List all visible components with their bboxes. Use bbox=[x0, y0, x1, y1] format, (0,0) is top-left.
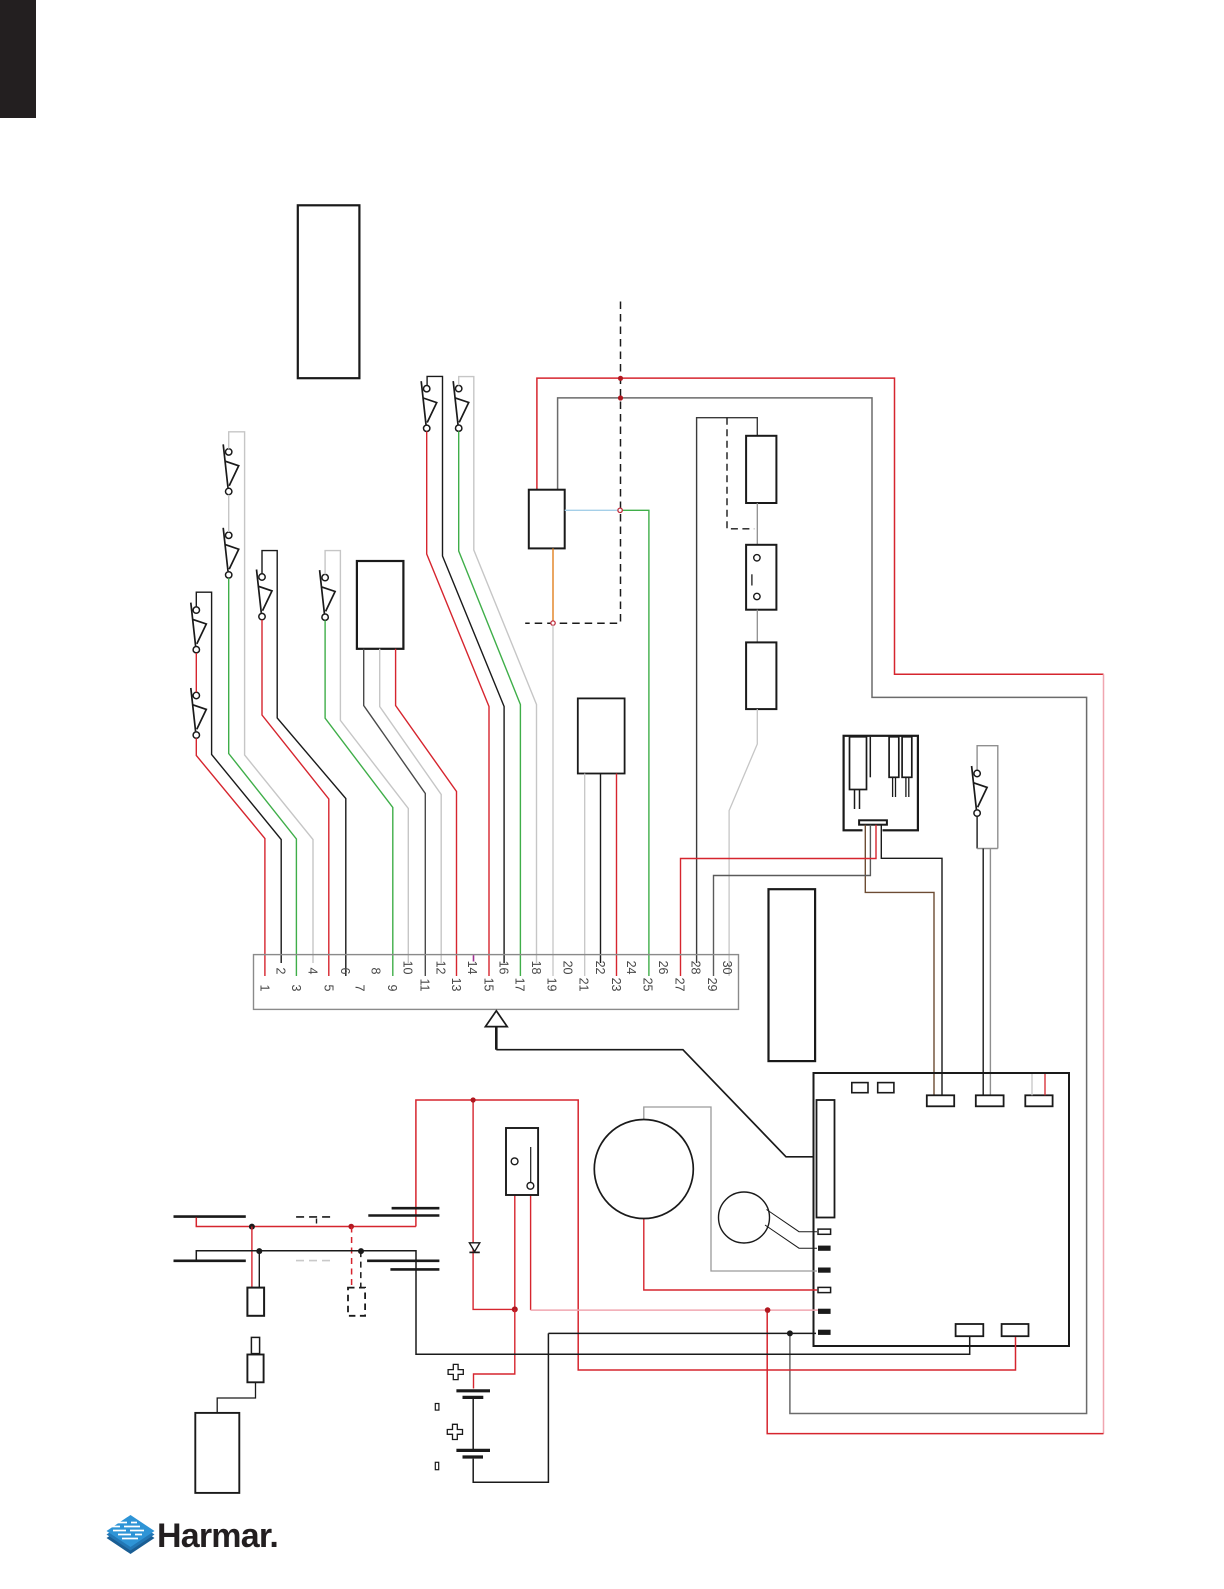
svg-text:20: 20 bbox=[560, 961, 574, 975]
svg-text:21: 21 bbox=[577, 978, 591, 992]
svg-text:10: 10 bbox=[401, 961, 415, 975]
svg-text:15: 15 bbox=[481, 978, 495, 992]
svg-text:30: 30 bbox=[720, 961, 734, 975]
svg-text:18: 18 bbox=[529, 961, 543, 975]
svg-text:27: 27 bbox=[672, 978, 686, 992]
svg-text:4: 4 bbox=[306, 968, 320, 975]
svg-text:11: 11 bbox=[417, 979, 431, 992]
svg-text:26: 26 bbox=[656, 961, 670, 975]
svg-text:22: 22 bbox=[593, 961, 607, 975]
svg-text:24: 24 bbox=[624, 961, 638, 975]
svg-text:1: 1 bbox=[257, 985, 271, 992]
svg-text:17: 17 bbox=[513, 978, 527, 992]
svg-text:25: 25 bbox=[641, 978, 655, 992]
svg-text:8: 8 bbox=[369, 968, 383, 975]
svg-text:13: 13 bbox=[449, 978, 463, 992]
svg-text:2: 2 bbox=[274, 968, 288, 975]
svg-text:9: 9 bbox=[385, 985, 399, 992]
svg-text:19: 19 bbox=[545, 978, 559, 992]
svg-text:28: 28 bbox=[689, 961, 703, 975]
svg-text:5: 5 bbox=[321, 985, 335, 992]
svg-text:7: 7 bbox=[353, 985, 367, 992]
svg-text:29: 29 bbox=[705, 978, 719, 992]
svg-text:12: 12 bbox=[434, 961, 448, 975]
svg-text:16: 16 bbox=[497, 961, 511, 975]
svg-text:6: 6 bbox=[338, 968, 352, 975]
svg-text:Harmar.: Harmar. bbox=[157, 1517, 278, 1555]
svg-text:23: 23 bbox=[609, 978, 623, 992]
svg-text:3: 3 bbox=[289, 985, 303, 992]
svg-text:14: 14 bbox=[465, 961, 479, 975]
